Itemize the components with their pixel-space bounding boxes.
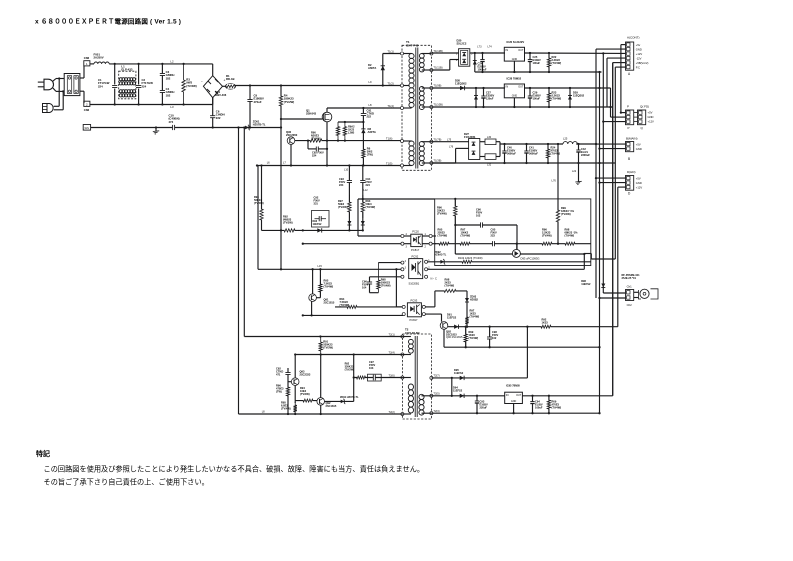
svg-text:(TW): (TW) [367,153,373,157]
svg-text:(TV/2W): (TV/2W) [345,368,354,371]
svg-text:182: 182 [166,76,171,80]
svg-text:HZ07B-TL: HZ07B-TL [253,122,266,126]
svg-text:L15: L15 [318,264,323,268]
svg-text:OUT: OUT [516,394,522,397]
svg-text:(TV/4W): (TV/4W) [254,201,264,205]
svg-text:11EFS2: 11EFS2 [313,223,323,226]
svg-text:T1(1): T1(1) [387,49,394,53]
svg-text:S1020B1: S1020B1 [409,281,420,285]
svg-text:W/G: W/G [85,128,90,130]
svg-text:35JE-25 *01: 35JE-25 *01 [622,276,637,280]
svg-text:L7: L7 [283,160,286,164]
svg-text:11EFS2: 11EFS2 [447,316,457,320]
svg-text:OUT: OUT [518,49,524,52]
svg-text:T2(4): T2(4) [389,350,395,354]
svg-text:102: 102 [476,214,481,218]
svg-text:(TV/4W): (TV/4W) [469,336,479,340]
svg-text:+5V: +5V [636,176,641,180]
svg-text:-12V: -12V [636,56,642,60]
svg-text:(TV/2W): (TV/2W) [284,100,294,104]
svg-text:120uF: 120uF [486,97,494,101]
svg-text:331: 331 [314,202,319,206]
svg-text:L9: L9 [369,80,372,84]
svg-text:(.2W): (.2W) [348,131,354,134]
svg-text:2SC1815: 2SC1815 [326,404,337,408]
svg-text:L12: L12 [364,189,369,192]
svg-text:224: 224 [142,84,147,88]
svg-text:103: 103 [369,366,374,370]
svg-text:Ch1: Ch1 [627,285,633,289]
svg-text:2SK643: 2SK643 [306,112,317,116]
svg-text:HZ6A2-TL: HZ6A2-TL [435,254,447,257]
svg-text:224: 224 [339,183,344,187]
svg-text:T1(11B): T1(11B) [433,66,442,70]
svg-text:IC28 78M52: IC28 78M52 [507,77,522,81]
svg-text:B: B [628,157,630,161]
svg-text:(TV/4W): (TV/4W) [311,137,321,141]
svg-text:CN6: CN6 [84,108,90,112]
svg-text:Q90 2SC1815: Q90 2SC1815 [446,335,463,339]
svg-text:T1(9B): T1(9B) [433,84,441,88]
svg-text:L76: L76 [552,179,557,183]
svg-text:IC20 SI-3122V: IC20 SI-3122V [507,40,525,44]
svg-text:220uF: 220uF [480,406,488,410]
svg-text:その旨ご了承下さり自己責任の上、ご使用下さい。: その旨ご了承下さり自己責任の上、ご使用下さい。 [44,478,209,487]
svg-text:L2: L2 [170,59,174,63]
svg-text:(TV/4W): (TV/4W) [338,205,348,209]
svg-text:L75: L75 [447,139,452,142]
svg-text:RBV-406: RBV-406 [215,93,226,97]
svg-text:L76: L76 [449,145,454,148]
svg-text:L22: L22 [572,170,577,173]
svg-text:GND: GND [636,147,642,151]
svg-text:特記: 特記 [36,449,50,458]
svg-text:T1(2): T1(2) [387,81,394,85]
svg-text:T2(2): T2(2) [389,410,395,414]
svg-text:P: P [628,126,630,130]
svg-text:GND: GND [511,400,517,403]
svg-text:(TV/4W): (TV/4W) [445,284,455,288]
svg-text:+12V: +12V [648,119,655,123]
svg-text:224: 224 [312,154,317,158]
svg-text:x ６８０００ＥＸＰＥＲＴ電源回路図 ( Ver 1.5 ): x ６８０００ＥＸＰＥＲＴ電源回路図 ( Ver 1.5 ) [35,17,181,26]
svg-text:(TV/4W): (TV/4W) [366,205,376,209]
svg-text:PC93: PC93 [411,299,418,303]
svg-text:B(MAIN): B(MAIN) [626,137,638,141]
svg-text:Q( FD): Q( FD) [640,105,649,109]
svg-text:L10: L10 [344,169,349,172]
svg-text:(TV/4W): (TV/4W) [552,97,562,101]
svg-text:223: 223 [491,234,496,238]
svg-text:2A250V: 2A250V [94,56,104,60]
svg-text:+5V: +5V [636,142,641,146]
svg-text:11EFS2: 11EFS2 [454,371,464,375]
svg-text:100uF: 100uF [535,406,543,410]
svg-text:PC92: PC92 [412,254,419,258]
svg-text:PC817: PC817 [411,248,420,252]
svg-text:A60TA: A60TA [368,130,376,134]
svg-text:104: 104 [362,286,367,290]
svg-text:RD-1B: RD-1B [226,77,235,81]
svg-text:100uF: 100uF [533,61,541,65]
svg-text:L73: L73 [477,46,482,49]
svg-text:470uF: 470uF [254,100,262,104]
svg-text:(TV/4W): (TV/4W) [437,212,447,216]
svg-text:HZ6B2: HZ6B2 [470,298,479,301]
svg-text:OUT: OUT [518,86,524,89]
svg-text:Ch2: Ch2 [627,303,633,307]
svg-text:IC95 78N05: IC95 78N05 [506,383,520,387]
svg-text:R102 12023 (TV/4W): R102 12023 (TV/4W) [458,256,483,260]
svg-text:T1(7B): T1(7B) [433,137,441,141]
svg-text:GND: GND [648,115,654,119]
svg-text:A(CONT): A(CONT) [627,36,640,40]
svg-text:+12V: +12V [636,52,643,56]
svg-text:L8: L8 [369,103,372,107]
svg-text:222: 222 [216,116,221,120]
svg-text:L31: L31 [487,164,492,167]
svg-text:+5B(Vcc2): +5B(Vcc2) [636,61,649,65]
svg-text:2SC2060: 2SC2060 [286,133,298,137]
svg-text:CN6: CN6 [84,56,90,60]
svg-text:(TV/4W): (TV/4W) [300,392,310,396]
svg-text:S5L2C2: S5L2C2 [457,42,467,46]
svg-text:(TV/4W): (TV/4W) [565,234,575,238]
svg-text:T1(4): T1(4) [387,104,394,108]
svg-text:D(HD): D(HD) [627,170,636,174]
svg-text:100uF: 100uF [533,97,541,101]
svg-text:(TV/4W): (TV/4W) [324,285,334,289]
svg-text:(TV/2W): (TV/2W) [283,221,293,225]
svg-text:T2(3): T2(3) [433,409,439,413]
svg-text:−: − [201,80,203,84]
svg-text:182: 182 [166,93,171,97]
svg-text:(TV/2W): (TV/2W) [323,346,333,350]
svg-text:ZD91 HZ07B-TL: ZD91 HZ07B-TL [340,396,359,399]
svg-text:222: 222 [367,115,372,119]
svg-text:PC817: PC817 [410,318,418,322]
svg-text:T2(1): T2(1) [389,332,395,336]
svg-text:IN: IN [506,393,509,397]
svg-text:この回路図を使用及び参照したことにより発生したいかなる不具合: この回路図を使用及び参照したことにより発生したいかなる不具合、破損、故障、障害に… [44,465,425,474]
svg-text:GND: GND [636,181,642,185]
svg-text:(TV/4W): (TV/4W) [281,407,291,411]
svg-text:L6: L6 [267,160,270,164]
svg-text:472: 472 [169,120,174,124]
svg-text:(TV/4W): (TV/4W) [461,234,471,238]
svg-text:2200uF: 2200uF [581,153,590,157]
svg-text:5600uF: 5600uF [529,152,538,156]
svg-text:1K23: 1K23 [542,321,549,325]
svg-text:224: 224 [98,84,103,88]
svg-text:(TV/4W): (TV/4W) [551,152,561,156]
svg-text:GND: GND [636,47,642,51]
svg-text:(TV/4W): (TV/4W) [552,61,562,65]
svg-text:+12V: +12V [636,185,643,189]
svg-text:(TV/4W): (TV/4W) [470,315,480,319]
svg-text:D93 uPC1093G: D93 uPC1093G [521,257,540,261]
svg-text:(TV/4W): (TV/4W) [552,406,562,410]
svg-text:L25: L25 [563,137,568,141]
svg-text:(TV/4W): (TV/4W) [381,284,391,288]
svg-text:471: 471 [276,373,281,377]
svg-text:IN: IN [506,85,509,89]
svg-text:(TV/4W): (TV/4W) [186,84,196,88]
svg-text:P.C: P.C [636,65,640,69]
svg-text:T1(3B): T1(3B) [433,159,441,163]
svg-text:T2(5): T2(5) [433,391,439,395]
svg-text:(TV/4W): (TV/4W) [561,212,571,216]
svg-text:T1(5): T1(5) [386,161,393,165]
svg-text:N・C: N・C [431,277,437,281]
svg-text:L74: L74 [488,46,493,49]
svg-text:11EQS02: 11EQS02 [573,94,585,98]
svg-text:(TV/4W): (TV/4W) [542,234,552,238]
svg-text:T2(6): T2(6) [389,373,395,377]
svg-text:A60TA: A60TA [368,66,376,70]
svg-text:T1(6): T1(6) [386,137,393,141]
svg-text:11EFS2: 11EFS2 [453,389,463,393]
svg-text:+5v: +5v [636,43,641,47]
svg-text:L30: L30 [487,136,492,139]
svg-text:GND: GND [512,95,518,98]
svg-text:2SC2333: 2SC2333 [300,373,311,377]
svg-text:P: P [627,105,629,109]
svg-text:IN: IN [506,48,509,52]
svg-text:(TV/4W): (TV/4W) [438,234,448,238]
svg-text:(TW): (TW) [276,390,282,394]
svg-text:T2(7): T2(7) [433,374,439,378]
svg-text:224: 224 [366,183,371,187]
svg-text:T1(10B): T1(10B) [433,103,443,107]
svg-text:PC20: PC20 [412,230,419,234]
svg-text:(TV/4W): (TV/4W) [340,303,350,307]
svg-text:+5V: +5V [648,110,653,114]
svg-text:L3: L3 [170,105,174,109]
svg-text:2SC1815: 2SC1815 [324,301,335,305]
svg-text:102: 102 [492,336,497,340]
svg-text:11EQS02: 11EQS02 [455,81,467,85]
svg-text:5600uF: 5600uF [507,152,516,156]
svg-text:11EFS2: 11EFS2 [581,282,591,286]
svg-text:GND: GND [512,58,518,61]
